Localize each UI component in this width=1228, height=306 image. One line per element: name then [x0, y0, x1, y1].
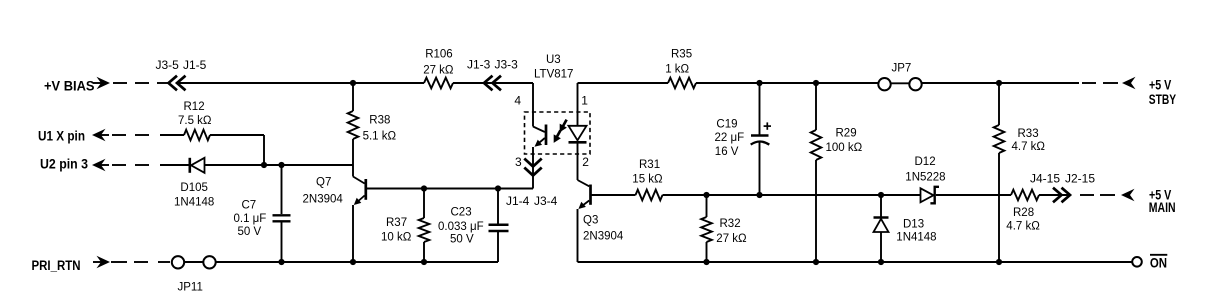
- resistor R33: [994, 125, 1005, 153]
- transistor Q7 base bar: [364, 179, 367, 200]
- resistor R32: [701, 217, 712, 242]
- node C19 bottom junction: [756, 192, 762, 198]
- svg-text:1N4148: 1N4148: [174, 197, 214, 209]
- svg-text:JP7: JP7: [892, 63, 912, 75]
- diode D105: [189, 158, 192, 173]
- wire top-right rail A: [578, 82, 669, 84]
- resistor R28: [1011, 190, 1039, 201]
- wire C23 top: [497, 189, 499, 224]
- svg-text:7.5 kΩ: 7.5 kΩ: [178, 115, 212, 127]
- wire +5V MAIN dashes: [1080, 194, 1094, 196]
- wire D13 top: [880, 195, 882, 217]
- wire C7 bottom: [281, 223, 283, 263]
- svg-text:JP11: JP11: [178, 282, 203, 294]
- terminal ON label: [1150, 254, 1167, 256]
- wire D105 to Q7 collector node: [205, 164, 354, 166]
- svg-text:R33: R33: [1018, 128, 1039, 140]
- wire C19 bottom: [759, 142, 761, 195]
- transistor Q3 collector: [578, 180, 590, 186]
- transistor Q3 base bar: [589, 185, 592, 205]
- wire R31 to D12: [663, 194, 921, 196]
- terminal +5V STBY arrow: [1122, 77, 1136, 89]
- svg-text:5.1 kΩ: 5.1 kΩ: [363, 131, 397, 143]
- svg-text:C7: C7: [242, 199, 257, 211]
- svg-text:16 V: 16 V: [715, 146, 739, 158]
- node R32 top junction: [703, 192, 709, 198]
- wire pin3 drop: [532, 147, 534, 189]
- node D13 bottom junction: [878, 259, 884, 265]
- svg-text:R28: R28: [1013, 207, 1034, 219]
- svg-text:R32: R32: [720, 218, 741, 230]
- svg-text:C19: C19: [716, 118, 737, 130]
- svg-text:2N3904: 2N3904: [583, 231, 624, 243]
- node R12 junction: [261, 162, 267, 168]
- diode D13: [874, 216, 889, 219]
- svg-text:22 μF: 22 μF: [715, 132, 745, 144]
- svg-text:2N3904: 2N3904: [303, 194, 344, 206]
- wire U2 to D105: [160, 164, 190, 166]
- svg-text:27 kΩ: 27 kΩ: [716, 233, 747, 245]
- light arrow 2: [556, 130, 560, 138]
- svg-text:LTV817: LTV817: [534, 69, 573, 81]
- wire C7 top: [281, 165, 283, 214]
- resistor R12: [184, 130, 210, 141]
- resistor R29: [811, 130, 822, 160]
- wire +V BIAS dashes: [113, 82, 127, 84]
- wire R106 to J1-3: [453, 82, 533, 84]
- LED anode wire: [577, 83, 579, 125]
- wire R37 bottom: [423, 242, 425, 262]
- wire Q3 base to R31: [592, 194, 636, 196]
- svg-text:ON: ON: [1150, 255, 1167, 270]
- svg-text:STBY: STBY: [1149, 92, 1176, 107]
- node C23 top junction: [495, 185, 501, 191]
- wire top-right rail C: [922, 82, 1079, 84]
- transistor Q7 collector: [353, 177, 365, 184]
- svg-text:J1-3: J1-3: [467, 57, 491, 71]
- svg-text:J3-5: J3-5: [156, 58, 180, 72]
- phototransistor emitter: [537, 138, 545, 145]
- svg-text:R12: R12: [184, 101, 205, 113]
- node C19 top junction: [756, 80, 762, 86]
- node R37 bottom junction: [421, 259, 427, 265]
- node C7 bottom junction: [278, 259, 284, 265]
- svg-text:2: 2: [582, 155, 589, 169]
- wire D12 to R28: [936, 194, 1011, 196]
- node R33 bottom junction: [996, 259, 1002, 265]
- svg-text:3: 3: [515, 155, 522, 169]
- node D12 D13 junction: [878, 192, 884, 198]
- wire R33 bottom: [998, 153, 1000, 262]
- wire R28 to J4-15: [1039, 194, 1070, 196]
- svg-text:1N5228: 1N5228: [905, 172, 945, 184]
- resistor R35: [668, 78, 696, 89]
- phototransistor bar: [545, 125, 548, 146]
- svg-text:J4-15: J4-15: [1030, 171, 1060, 185]
- svg-text:C23: C23: [451, 206, 472, 218]
- svg-text:R106: R106: [425, 48, 453, 60]
- svg-text:1N4148: 1N4148: [896, 232, 936, 244]
- wire U1 dashes: [112, 134, 126, 136]
- svg-text:PRI_RTN: PRI_RTN: [32, 258, 81, 273]
- svg-text:J1-5: J1-5: [183, 58, 207, 72]
- node top rail / R38 junction: [350, 80, 356, 86]
- svg-text:50 V: 50 V: [238, 226, 262, 238]
- svg-text:D12: D12: [915, 156, 936, 168]
- wire bottom-right rail: [578, 261, 1132, 263]
- resistor R38: [348, 111, 359, 139]
- wire bottom-left rail: [216, 261, 498, 263]
- resistor R106: [424, 78, 453, 89]
- svg-text:J3-4: J3-4: [534, 194, 558, 208]
- node R37 top junction: [421, 185, 427, 191]
- svg-text:U2 pin 3: U2 pin 3: [40, 156, 88, 171]
- jumper JP11: [172, 256, 184, 268]
- svg-text:15 kΩ: 15 kΩ: [632, 174, 663, 186]
- svg-text:D13: D13: [903, 219, 924, 231]
- svg-text:4.7 kΩ: 4.7 kΩ: [1012, 141, 1046, 153]
- terminal +V BIAS arrow: [93, 82, 101, 84]
- node Q7 emitter junction: [350, 259, 356, 265]
- capacitor C23: [489, 224, 509, 227]
- node C7 junction: [278, 162, 284, 168]
- svg-text:27 kΩ: 27 kΩ: [423, 65, 454, 77]
- svg-text:R29: R29: [836, 128, 857, 140]
- capacitor C19: [751, 134, 769, 136]
- svg-text:4.7 kΩ: 4.7 kΩ: [1006, 220, 1040, 232]
- capacitor C19 plus: [764, 125, 771, 127]
- svg-text:4: 4: [514, 93, 521, 107]
- wire R38 top: [352, 83, 354, 111]
- capacitor C7: [273, 214, 291, 216]
- svg-text:Q3: Q3: [583, 215, 598, 227]
- svg-text:+V BIAS: +V BIAS: [44, 79, 95, 94]
- wire R32 bottom: [706, 242, 708, 262]
- connector J1-4 J3-4 chevrons: [524, 159, 541, 167]
- wire U2 dashes: [112, 164, 126, 166]
- wire +5V STBY dashes: [1082, 82, 1096, 84]
- svg-text:10 kΩ: 10 kΩ: [381, 232, 412, 244]
- svg-text:U3: U3: [546, 54, 561, 66]
- transistor Q7 emitter: [356, 196, 365, 204]
- connector J4-15 J2-15 chevrons: [1053, 188, 1062, 203]
- svg-text:1: 1: [581, 93, 588, 107]
- svg-text:R31: R31: [639, 159, 660, 171]
- svg-text:J1-4: J1-4: [506, 194, 530, 208]
- svg-text:R38: R38: [369, 114, 390, 126]
- wire R29 top: [815, 83, 817, 130]
- node R29 bottom junction: [813, 259, 819, 265]
- node R32 bottom junction: [703, 259, 709, 265]
- node R29 top junction: [813, 80, 819, 86]
- svg-text:R35: R35: [671, 48, 692, 60]
- svg-text:U1 X pin: U1 X pin: [38, 128, 85, 143]
- wire R33 top: [998, 83, 1000, 125]
- wire top-left rail: [179, 82, 424, 84]
- svg-text:0.033 μF: 0.033 μF: [438, 221, 484, 233]
- wire R12 to corner: [210, 134, 264, 136]
- LED cathode bar: [569, 141, 587, 144]
- wire R38 bottom: [352, 139, 354, 177]
- light arrow 1: [562, 120, 566, 128]
- wire Q7 emitter to rail: [352, 205, 354, 262]
- resistor R31: [636, 190, 663, 201]
- wire R29 bottom: [815, 160, 817, 262]
- svg-text:D105: D105: [180, 182, 208, 194]
- wire C23 bottom: [497, 232, 499, 262]
- resistor R37: [419, 218, 430, 242]
- svg-text:R37: R37: [386, 217, 407, 229]
- jumper JP7: [878, 78, 890, 90]
- transistor Q3 emitter: [580, 201, 589, 208]
- wire U3 pin 4 drop: [532, 83, 534, 127]
- diode D12 zener: [921, 188, 934, 202]
- LED triangle: [569, 126, 587, 141]
- svg-text:Q7: Q7: [316, 176, 331, 188]
- wire PRI_RTN dashes: [111, 261, 127, 263]
- connector J1-3 J3-3 chevrons: [484, 76, 493, 91]
- wire R37 top: [423, 189, 425, 219]
- svg-text:1 kΩ: 1 kΩ: [665, 64, 689, 76]
- wire R32 top: [706, 195, 708, 217]
- wire pin2 drop: [577, 144, 579, 181]
- wire C19 top: [759, 83, 761, 135]
- terminal U1 X pin arrow: [92, 129, 106, 141]
- phototransistor collector: [533, 127, 545, 133]
- op-coupler U3 dashed box: [525, 112, 591, 154]
- wire Q7 base line: [367, 188, 533, 190]
- svg-text:+5 V: +5 V: [1149, 78, 1171, 93]
- svg-text:J2-15: J2-15: [1065, 171, 1095, 185]
- wire U1 to R12: [160, 134, 184, 136]
- svg-text:0.1 μF: 0.1 μF: [234, 213, 267, 225]
- svg-text:50 V: 50 V: [450, 233, 474, 245]
- connector J3-5 J1-5 chevrons: [169, 76, 178, 91]
- wire Q3 emitter: [577, 209, 579, 262]
- svg-text:MAIN: MAIN: [1149, 200, 1176, 215]
- terminal U2 pin 3 arrow: [92, 159, 106, 171]
- svg-text:100 kΩ: 100 kΩ: [826, 142, 863, 154]
- terminal ON circle: [1132, 257, 1142, 267]
- svg-text:J3-3: J3-3: [495, 57, 519, 71]
- wire top-right rail B: [696, 82, 878, 84]
- wire D13 bottom: [880, 232, 882, 262]
- node R33 top junction: [996, 80, 1002, 86]
- terminal PRI_RTN arrow: [93, 261, 101, 263]
- terminal +5V MAIN arrow: [1121, 189, 1135, 201]
